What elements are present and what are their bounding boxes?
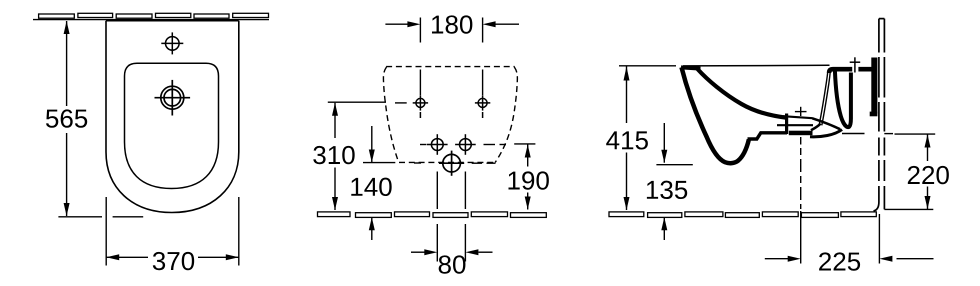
rear rim bar xyxy=(829,69,876,73)
rear inner wall double line xyxy=(819,72,828,125)
rim top edge xyxy=(681,67,701,68)
drain boss left edge xyxy=(785,114,788,135)
dim 190 with ref line xyxy=(514,144,535,210)
large crosshair (faucet hole) xyxy=(155,80,191,116)
bidet profile: outer front face xyxy=(682,67,749,163)
white gap in bar at tap centerline xyxy=(852,64,858,72)
drain fitting top line xyxy=(783,116,813,118)
top fixing holes crosshairs xyxy=(413,95,491,118)
dim 225 xyxy=(765,258,934,260)
outlet pipe bottom edge xyxy=(810,130,842,137)
centerline dash left of hole xyxy=(395,102,407,104)
dim 565 xyxy=(58,21,143,217)
dim 220 xyxy=(927,135,929,210)
drain vertical centerline (dash-dot) xyxy=(795,107,807,264)
80-holes crosshairs xyxy=(427,134,476,155)
dim 135 xyxy=(656,123,692,240)
drain crosshair xyxy=(439,151,464,176)
inner bowl curve xyxy=(698,69,788,118)
dashed body outline xyxy=(383,67,517,163)
drain block xyxy=(789,131,813,136)
dim 180 xyxy=(385,18,519,96)
dim 80 xyxy=(411,251,493,253)
bowl rear to drain joint xyxy=(811,124,821,131)
small crosshair (tap hole) xyxy=(161,32,183,54)
225 extension line right xyxy=(878,214,880,264)
outlet pipe top edge xyxy=(812,118,840,129)
wall double line xyxy=(874,19,885,211)
centerline dashes at 80-hole level xyxy=(420,144,506,146)
middle floor tiles xyxy=(318,212,547,218)
right floor tiles xyxy=(609,212,876,218)
siphon U-loop under rim bar xyxy=(835,71,851,128)
bidet outer body outline xyxy=(106,21,239,213)
inner bowl outline xyxy=(125,63,219,188)
floor line right of wall xyxy=(884,208,933,210)
mounting bracket xyxy=(871,58,877,114)
faucet centerline mark xyxy=(854,57,856,72)
underside ledge xyxy=(748,133,788,139)
220 ref dash line from pipe to wall xyxy=(842,133,935,136)
wall line under tiles xyxy=(33,19,269,21)
rim plane line front to rear xyxy=(683,64,830,67)
80 extension lines xyxy=(437,172,465,262)
dim 310 with ref line xyxy=(328,102,386,210)
tile strip segments xyxy=(39,13,269,18)
dim 140 xyxy=(371,126,373,240)
140 ref line / drain centerline xyxy=(363,162,496,165)
drain fitting mid line xyxy=(777,124,813,126)
dim 415 with ref line xyxy=(619,66,676,210)
dim 370 xyxy=(106,197,239,266)
